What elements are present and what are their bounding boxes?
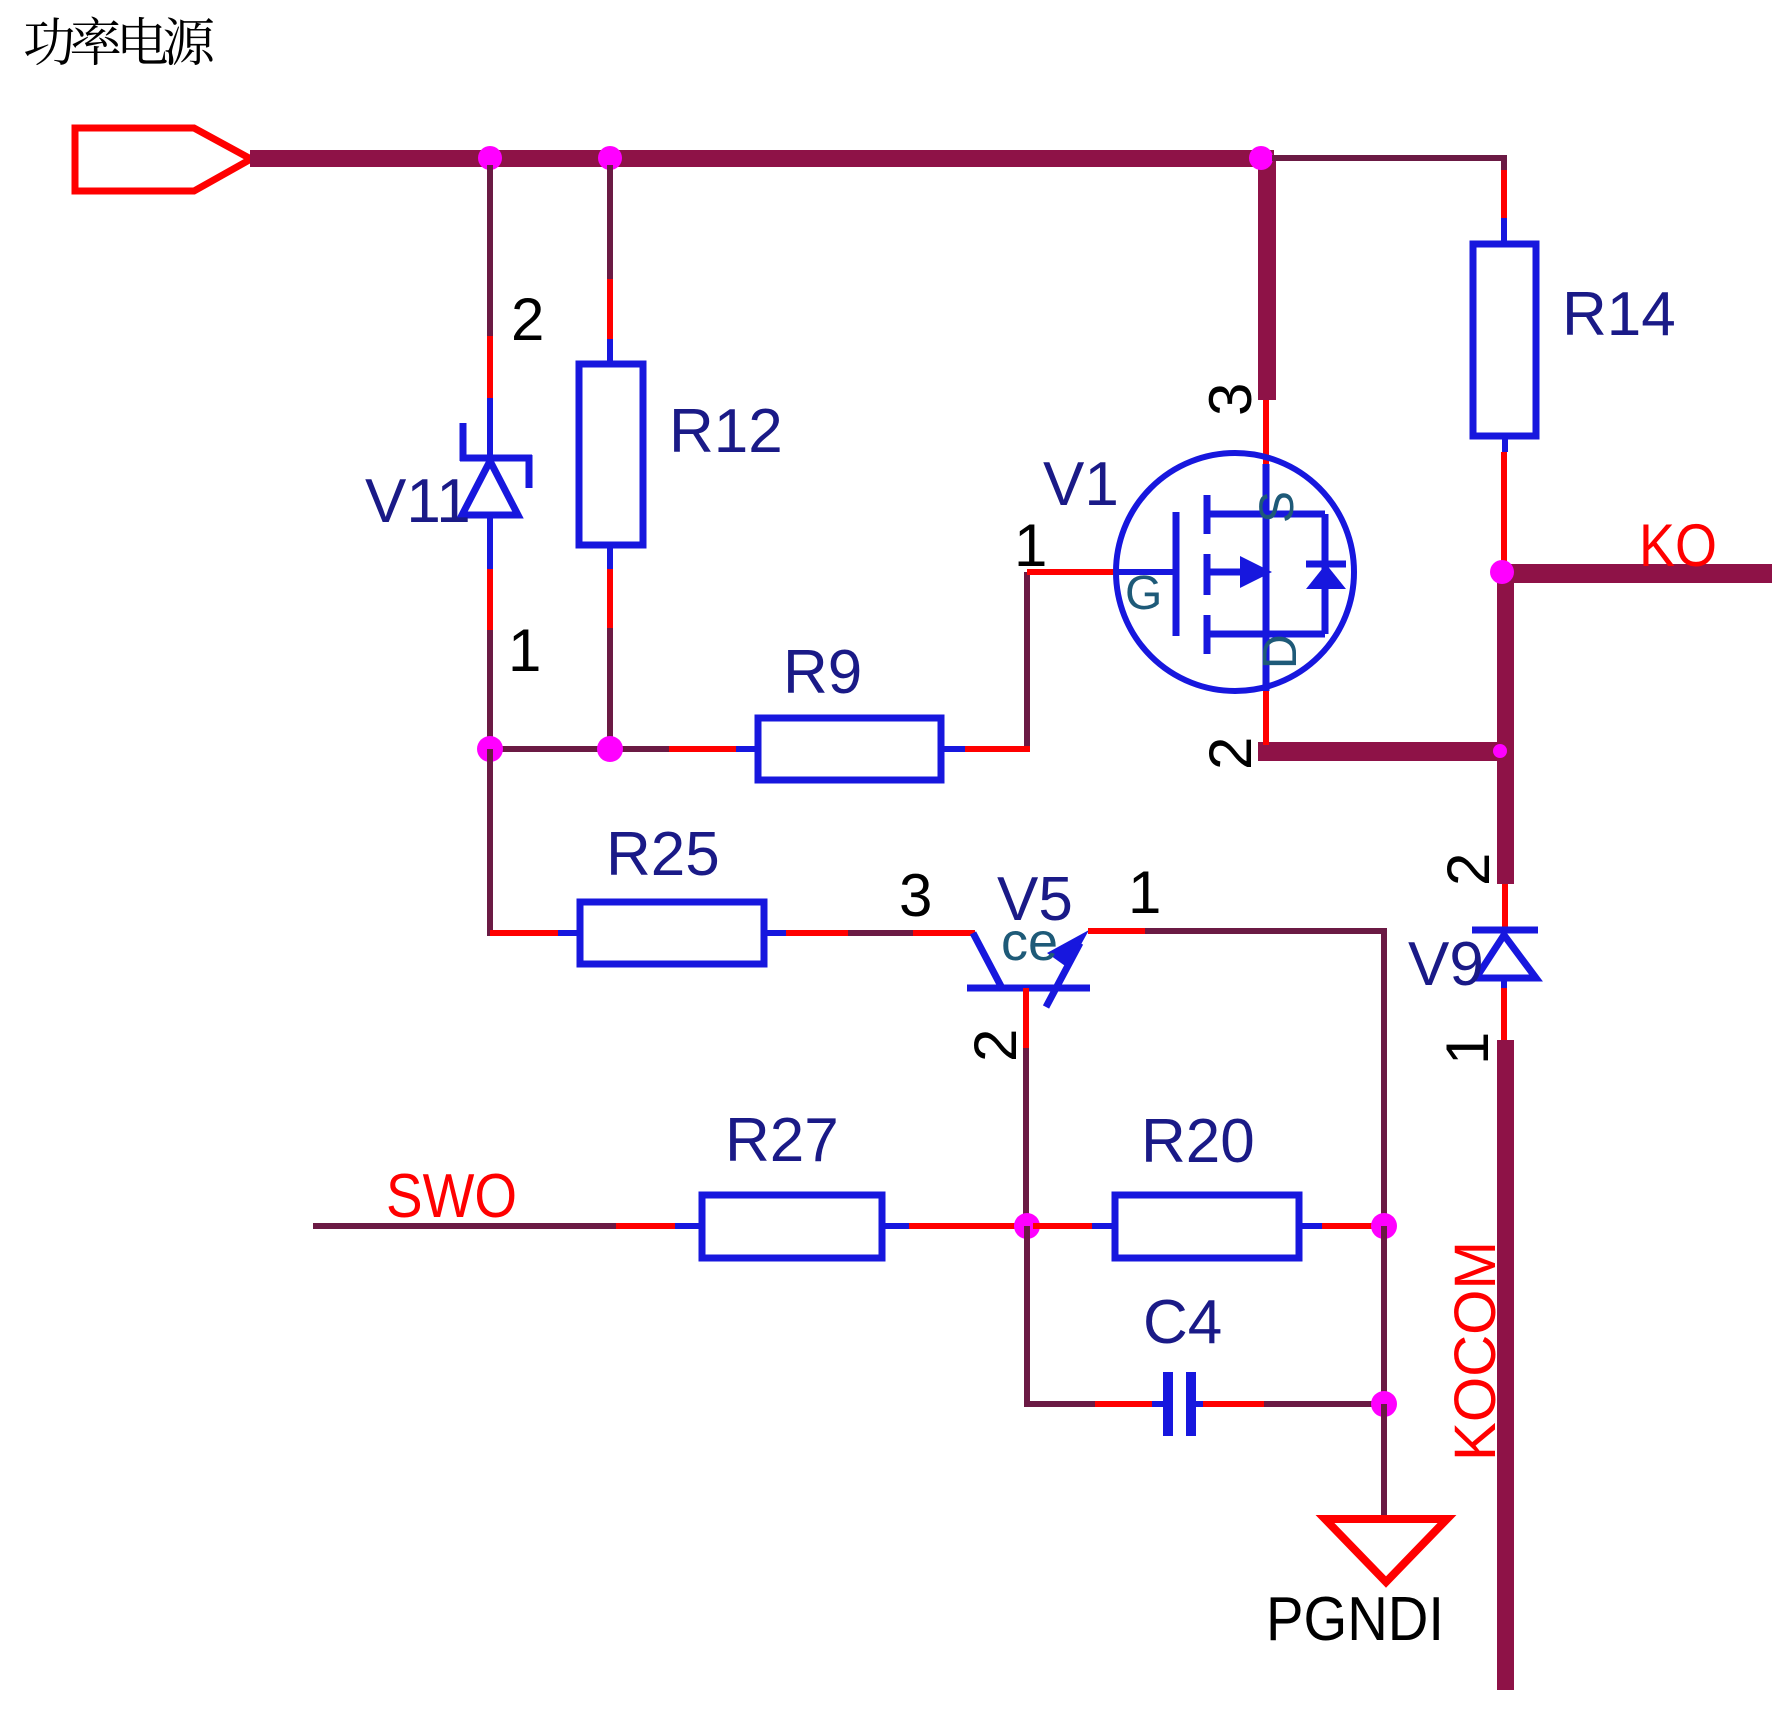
svg-text:PGNDI: PGNDI	[1266, 1585, 1444, 1654]
svg-text:R20: R20	[1141, 1107, 1255, 1176]
svg-text:ce: ce	[1001, 912, 1058, 972]
svg-text:V11: V11	[365, 467, 471, 536]
svg-text:V1: V1	[1043, 450, 1119, 519]
svg-text:1: 1	[1128, 859, 1161, 926]
svg-text:1: 1	[1014, 512, 1047, 579]
svg-text:G: G	[1125, 567, 1162, 620]
svg-text:R9: R9	[783, 638, 862, 707]
svg-text:D: D	[1254, 634, 1307, 669]
svg-text:3: 3	[1197, 383, 1264, 416]
svg-text:V9: V9	[1408, 930, 1484, 999]
svg-text:1: 1	[1434, 1032, 1501, 1065]
svg-text:R14: R14	[1562, 280, 1676, 349]
svg-text:S: S	[1251, 491, 1304, 523]
svg-text:KO: KO	[1639, 512, 1717, 579]
svg-text:R27: R27	[725, 1106, 839, 1175]
svg-text:KOCOM: KOCOM	[1443, 1241, 1508, 1461]
svg-text:R12: R12	[669, 397, 783, 466]
svg-text:C4: C4	[1143, 1288, 1222, 1357]
svg-text:SWO: SWO	[386, 1162, 517, 1231]
svg-text:3: 3	[899, 862, 932, 929]
svg-text:R25: R25	[606, 820, 720, 889]
svg-text:2: 2	[962, 1029, 1029, 1062]
svg-text:2: 2	[1435, 853, 1502, 886]
svg-text:2: 2	[1197, 737, 1264, 770]
svg-text:1: 1	[508, 617, 541, 684]
svg-text:2: 2	[511, 286, 544, 353]
